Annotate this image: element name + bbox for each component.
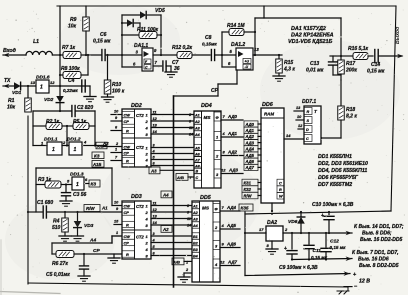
net box R/W — [84, 205, 100, 212]
label C4 — [63, 78, 78, 93]
label DD1.6 — [36, 75, 50, 81]
svg-text:6: 6 — [228, 61, 231, 66]
svg-text:КЗ: КЗ — [94, 153, 100, 158]
svg-text:−: − — [354, 284, 358, 290]
svg-text:С2 820: С2 820 — [77, 105, 93, 111]
regulator DA2 — [266, 226, 283, 241]
DD2 sec1 output wires — [151, 110, 194, 134]
DD3 R pin wire — [114, 220, 122, 225]
svg-text:3: 3 — [189, 120, 191, 124]
svg-text:2: 2 — [284, 227, 288, 232]
op-amp DA1.1 — [142, 48, 153, 71]
label R11 — [137, 27, 159, 33]
diode VD4 — [121, 19, 140, 27]
DD4 out AD1 — [221, 131, 243, 137]
pin 6 wire DA1.2 — [222, 61, 236, 67]
label R9 — [68, 17, 77, 30]
diode VD5 — [122, 11, 161, 18]
DD5 out AD4 — [220, 205, 240, 211]
input arrow TX — [3, 84, 14, 89]
DD3 sec1 output wires — [151, 201, 192, 225]
svg-text:DD2: DD2 — [131, 103, 142, 109]
label R10 — [112, 82, 125, 95]
label VD5 — [155, 8, 165, 14]
label DA1.2 — [231, 42, 245, 48]
resistor R3 — [36, 181, 67, 188]
svg-text:С3 56: С3 56 — [73, 192, 87, 198]
capacitor C10 — [321, 211, 334, 234]
DD5 input pins — [187, 204, 191, 228]
CP bus horizontal — [174, 95, 219, 97]
svg-text:100 к: 100 к — [112, 89, 125, 95]
label R16 — [348, 46, 369, 52]
DD4 input pins — [188, 113, 193, 137]
label R14 — [227, 23, 245, 29]
svg-text:СТ2: СТ2 — [136, 113, 144, 118]
ground under C3 — [60, 201, 72, 206]
svg-text:DA1.2: DA1.2 — [231, 42, 245, 48]
osc2 top wire — [36, 167, 112, 169]
svg-text:А2: А2 — [194, 120, 201, 124]
svg-text:СТ2: СТ2 — [136, 145, 144, 150]
resistor R18 — [338, 80, 345, 138]
svg-text:Выв. 8 DD2-DD5: Выв. 8 DD2-DD5 — [359, 263, 399, 269]
svg-text:С11: С11 — [313, 248, 322, 254]
counter DD3 — [122, 201, 151, 259]
wire DA1.2 down to CP — [218, 70, 237, 96]
label plus — [353, 272, 357, 278]
svg-text:6: 6 — [115, 126, 118, 130]
svg-text:13: 13 — [254, 47, 259, 52]
resistor R12 — [177, 52, 192, 59]
svg-text:C: C — [306, 137, 309, 141]
mux DD5 — [192, 201, 220, 282]
plus supply wire — [245, 271, 350, 276]
wire C1 line to DD3 CP — [48, 211, 123, 213]
label VD6 — [288, 219, 298, 225]
pin 7 wire DA1.1 — [153, 60, 162, 66]
svg-text:АД1: АД1 — [227, 131, 238, 136]
label DD7.1 — [302, 99, 316, 105]
svg-text:9: 9 — [115, 116, 118, 120]
diode VD3 — [74, 211, 82, 236]
DD2 sec1 input wires — [111, 110, 122, 131]
net box A4 mid — [161, 191, 172, 198]
resistor R6 — [56, 251, 122, 258]
label DA2 — [267, 220, 277, 226]
top supply rail — [57, 5, 396, 7]
capacitor C3 — [62, 185, 71, 202]
svg-text:R10: R10 — [112, 82, 121, 88]
label C3 — [73, 192, 87, 198]
svg-text:А3: А3 — [194, 127, 201, 131]
label R7 — [62, 45, 76, 51]
op-amp DA1.2 — [236, 48, 253, 70]
label R6 — [52, 261, 68, 267]
svg-text:А2: А2 — [102, 141, 109, 146]
pin 6 DD1.3 — [84, 177, 89, 184]
pin 13 DA1.2 — [254, 47, 259, 52]
svg-text:W: W — [279, 195, 283, 199]
wire A4-CP left — [51, 243, 53, 254]
svg-text:1: 1 — [40, 85, 43, 91]
label C1 — [37, 200, 53, 206]
svg-text:24: 24 — [188, 133, 193, 137]
wire osc2 to DD3 CW — [112, 168, 122, 206]
pin 13 DD1.6 — [31, 80, 36, 85]
svg-text:10к: 10к — [7, 105, 16, 111]
DD5 input cells B1-B4 — [192, 233, 200, 259]
label C5 — [46, 272, 70, 278]
ground under C4 — [84, 97, 96, 102]
DD6 control net boxes — [242, 179, 261, 199]
svg-text:R3 1к: R3 1к — [38, 177, 52, 183]
svg-text:АД3: АД3 — [245, 140, 255, 145]
svg-text:R5 1к: R5 1к — [73, 119, 87, 125]
svg-text:2: 2 — [185, 268, 189, 272]
label R1 — [7, 98, 16, 111]
svg-text:12: 12 — [153, 117, 158, 121]
svg-text:АД5: АД5 — [245, 153, 255, 158]
ground under VD3 — [72, 236, 84, 241]
net box KZ5 power — [239, 204, 253, 211]
svg-text:DA2: DA2 — [267, 220, 277, 226]
net label A2 dd2 — [102, 141, 109, 146]
label CP net — [211, 88, 219, 94]
osc1 top wire — [33, 110, 71, 112]
DD7.1 pin wires — [294, 106, 304, 129]
ground under R4 — [59, 236, 71, 241]
ground under C7 — [165, 72, 177, 77]
capacitor C7 — [163, 61, 171, 72]
label DD5 — [200, 195, 212, 201]
svg-text:7: 7 — [115, 156, 118, 160]
svg-text:1: 1 — [74, 147, 77, 153]
svg-text:Выв. 8 DD6;: Выв. 8 DD6; — [362, 231, 392, 237]
pin 12 DD1.6 — [50, 80, 55, 85]
svg-text:2: 2 — [115, 142, 119, 146]
svg-text:17: 17 — [259, 227, 264, 232]
wire A4 line — [52, 236, 122, 243]
net box KZ osc1 — [92, 152, 104, 159]
wire column x60 — [59, 6, 61, 86]
gate DD1.2 — [69, 142, 82, 155]
DA2 pin2 wire — [283, 227, 352, 235]
svg-text:С: С — [279, 182, 282, 186]
feedback wire DA1.2 left — [221, 32, 223, 67]
label VD3 — [84, 223, 94, 229]
label DD3 — [131, 194, 142, 200]
DD4 input cells A5-A8 — [194, 144, 202, 168]
svg-text:+U: +U — [245, 60, 250, 64]
label C8 — [202, 35, 217, 47]
resistor R4 — [62, 211, 69, 236]
label DD1.1 — [44, 137, 58, 143]
svg-text:Вход: Вход — [3, 48, 17, 54]
svg-text:К Выв. 7 DD1, DD7,: К Выв. 7 DD1, DD7, — [352, 250, 398, 256]
DD4 out AD2 — [221, 150, 243, 156]
label DD2 — [131, 103, 142, 109]
wire R12 to C8 — [192, 54, 223, 56]
DD6 out wire to DD7 — [284, 133, 304, 139]
svg-text:АД2: АД2 — [227, 150, 238, 155]
wire to upper rail — [255, 6, 341, 56]
svg-text:CW: CW — [124, 145, 131, 150]
svg-text:Выв. 16 DD6: Выв. 16 DD6 — [358, 257, 389, 263]
svg-text:R: R — [126, 129, 129, 134]
supply text 1 — [354, 224, 404, 243]
svg-text:VD6: VD6 — [288, 219, 298, 225]
resistor R11 — [121, 32, 162, 39]
svg-text:+: + — [284, 246, 287, 252]
svg-text:АД1: АД1 — [245, 128, 255, 133]
resistor R1 — [25, 86, 32, 112]
DD6 control cells — [277, 179, 284, 199]
DD5 out AD6 — [220, 242, 240, 248]
svg-text:6: 6 — [85, 177, 88, 182]
label DD4 — [201, 103, 212, 109]
svg-text:13: 13 — [31, 80, 36, 85]
net box A1V osc1 — [92, 161, 104, 168]
svg-text:R8 100к: R8 100к — [61, 66, 80, 72]
diode VD1 — [14, 82, 36, 90]
label Вход — [3, 48, 17, 54]
wire DA1.1 out — [153, 54, 177, 56]
svg-text:8: 8 — [267, 243, 270, 248]
DD6 bottom wire — [271, 203, 273, 212]
svg-text:CW: CW — [124, 113, 131, 118]
resistor R10 — [104, 54, 111, 97]
svg-text:+: + — [353, 272, 357, 278]
svg-text:Выход: Выход — [395, 26, 401, 44]
DD5 output cells — [213, 204, 220, 269]
DD5 out AD7 — [220, 260, 240, 266]
svg-text:DD4: DD4 — [201, 103, 212, 109]
wire C8 to DA1.2 — [215, 54, 236, 56]
svg-text:13: 13 — [153, 123, 158, 127]
ground under DD3 — [108, 254, 120, 263]
svg-text:R1: R1 — [8, 98, 15, 104]
pin 5 DD1.3 — [67, 179, 70, 184]
svg-text:1: 1 — [52, 147, 55, 153]
svg-text:14: 14 — [286, 133, 291, 138]
label R18 — [346, 107, 357, 120]
svg-text:АД0: АД0 — [227, 114, 238, 119]
svg-text:R: R — [126, 252, 129, 257]
label C11 — [311, 248, 328, 260]
osc1 mid wire — [66, 126, 68, 147]
DD2 sec2 input wires — [103, 142, 122, 161]
net box A3 mid — [149, 167, 194, 174]
resistor R8 — [59, 54, 89, 79]
chassis ground — [337, 287, 349, 294]
svg-text:1: 1 — [76, 182, 79, 188]
label C10 — [312, 202, 354, 208]
svg-text:+: + — [321, 213, 324, 219]
svg-text:7: 7 — [223, 114, 226, 119]
svg-text:С8: С8 — [205, 35, 212, 41]
svg-text:АД2: АД2 — [245, 134, 255, 139]
svg-text:ТХ: ТХ — [4, 78, 11, 84]
label DD6 — [262, 102, 274, 108]
label DA1.1 — [134, 43, 148, 49]
label TX — [4, 78, 11, 84]
svg-text:0,15мк: 0,15мк — [202, 42, 217, 47]
wire DA1.2 out — [253, 54, 282, 56]
DD4 output cells — [214, 112, 221, 178]
svg-text:DD1.2: DD1.2 — [67, 137, 81, 143]
plus rail wire — [245, 211, 391, 215]
svg-text:С10 100мк × 6,3В: С10 100мк × 6,3В — [312, 202, 354, 208]
label C9 — [279, 265, 318, 271]
svg-text:АД7: АД7 — [227, 260, 238, 265]
net box A/B lower — [172, 258, 192, 265]
counter DD2 — [122, 109, 151, 168]
osc1 left wire — [32, 111, 34, 146]
svg-text:12 В: 12 В — [359, 279, 370, 285]
svg-text:DD1 К555ЛН1: DD1 К555ЛН1 — [318, 154, 352, 160]
ground under DD5 — [178, 273, 190, 282]
svg-text:5: 5 — [67, 179, 70, 184]
svg-text:А4: А4 — [194, 133, 200, 137]
svg-text:0,22мк: 0,22мк — [63, 88, 78, 93]
diode VD2 — [56, 86, 64, 111]
bottom border / minus rail — [28, 283, 348, 287]
capacitor C9 — [284, 232, 297, 261]
DA2 pin17 wire — [244, 227, 266, 234]
ground under R10 — [102, 97, 114, 102]
resistor R5 — [73, 123, 95, 130]
net box A2 lower — [161, 226, 172, 233]
net label A1 dd3 — [101, 206, 108, 211]
DD3 sec2 output wires — [151, 232, 192, 256]
svg-text:DD4, DD5 К555КП11: DD4, DD5 К555КП11 — [318, 168, 367, 174]
svg-text:-U: -U — [245, 65, 249, 69]
output wire — [379, 54, 404, 59]
svg-text:DD2, DD3 К561ИЕ10: DD2, DD3 К561ИЕ10 — [318, 161, 368, 167]
label VD2 — [44, 97, 54, 103]
wire R3 to DD1.3 — [66, 184, 72, 186]
net label CP2 — [93, 248, 100, 254]
svg-text:DD1.1: DD1.1 — [44, 137, 58, 143]
wire DD1.6 out — [49, 85, 90, 87]
label C14 — [367, 62, 385, 75]
label R8 — [61, 66, 80, 72]
supply text 2 — [352, 250, 399, 269]
pin 5 DA1.2 — [230, 49, 233, 54]
svg-text:В4: В4 — [193, 255, 198, 259]
wire L1 to R7 — [52, 54, 63, 56]
svg-text:К Выв. 14 DD1, DD7;: К Выв. 14 DD1, DD7; — [354, 224, 404, 230]
label L1 — [33, 39, 39, 45]
DD3 CP pin — [116, 207, 119, 211]
resistor R16 — [341, 53, 373, 60]
svg-text:12: 12 — [50, 80, 55, 85]
label R3 — [38, 177, 52, 183]
capacitor C8 — [211, 50, 214, 61]
inductor L1 — [26, 51, 52, 55]
gate DD1.1 — [47, 142, 62, 155]
svg-text:АД6: АД6 — [245, 159, 255, 164]
svg-text:R14 1М: R14 1М — [227, 23, 245, 29]
svg-text:А/В: А/В — [172, 259, 180, 264]
resistor R7 — [63, 52, 81, 59]
net label A4 — [89, 238, 96, 244]
ram DD6 — [261, 108, 284, 203]
svg-text:КЗ: КЗ — [91, 182, 97, 187]
capacitor C1 — [27, 206, 47, 218]
svg-text:11: 11 — [153, 110, 157, 114]
svg-text:36: 36 — [174, 66, 180, 72]
svg-text:10: 10 — [114, 110, 119, 114]
resistor R15 — [276, 55, 283, 76]
svg-text:СР: СР — [211, 88, 219, 94]
svg-text:А1: А1 — [194, 114, 200, 118]
svg-text:0,15 мк: 0,15 мк — [330, 245, 347, 250]
svg-text:DD6 КР565РУ5Г: DD6 КР565РУ5Г — [318, 175, 359, 181]
svg-text:5: 5 — [230, 49, 233, 54]
svg-text:АД4: АД4 — [245, 147, 255, 152]
pin 1 DD1.1 — [33, 141, 47, 146]
minus stub — [344, 286, 352, 288]
capacitor C4 — [82, 80, 90, 96]
svg-text:CP: CP — [124, 119, 130, 124]
label R15 — [283, 60, 295, 73]
capacitor C2 — [72, 106, 95, 117]
label DD1.3 — [70, 172, 84, 178]
svg-text:DA1 К157УД2: DA1 К157УД2 — [291, 26, 326, 32]
diode VD6 — [297, 211, 305, 234]
parts list middle — [318, 154, 368, 188]
wire DD1.1-DD1.2 — [62, 137, 69, 146]
DD4 input cells B C — [194, 167, 202, 180]
resistor R14 — [222, 29, 256, 36]
label R17 — [345, 61, 357, 74]
svg-text:11: 11 — [189, 126, 193, 130]
svg-text:С9 100мк × 6,3В: С9 100мк × 6,3В — [279, 265, 318, 271]
label C2 — [77, 105, 93, 111]
svg-text:DD1.6: DD1.6 — [36, 75, 50, 81]
svg-text:С12: С12 — [330, 239, 339, 245]
DD2 sec2 output wires — [151, 143, 194, 165]
wire R7 to C6 — [81, 54, 101, 56]
wire A4 bend — [112, 236, 122, 243]
label Выход — [395, 26, 401, 44]
mux DD4 — [194, 111, 221, 188]
label DD1.2 — [67, 137, 81, 143]
ground under C5 — [78, 276, 90, 281]
resistor R9 — [83, 6, 90, 55]
wire CP line — [52, 253, 56, 255]
label R2 — [46, 119, 60, 125]
svg-text:14: 14 — [153, 130, 158, 134]
DD4 out AD0 — [221, 114, 243, 120]
capacitor C14 — [375, 50, 378, 63]
ground under R15 — [273, 76, 285, 81]
capacitor C6 — [102, 50, 105, 61]
node R16 junction — [340, 55, 342, 57]
svg-text:С4: С4 — [68, 78, 75, 84]
capacitor C12 — [321, 232, 331, 261]
label minus — [354, 284, 358, 290]
DD5 input cells A1-A4 — [192, 202, 200, 228]
osc1 right wire — [94, 111, 96, 146]
net box KZ dd13 — [89, 180, 100, 187]
pin 6 wire DA1.1 — [122, 62, 142, 68]
label C13 — [306, 61, 324, 74]
capacitor C13 — [329, 56, 342, 75]
label R12 — [172, 45, 193, 51]
